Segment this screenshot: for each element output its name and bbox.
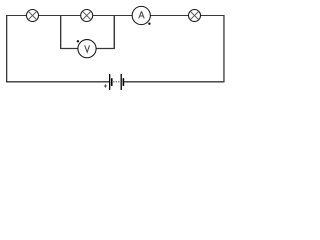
battery cell 1 long plate (+) — [109, 74, 111, 90]
voltmeter polarity dot — [77, 40, 79, 42]
wire: voltmeter branch horizontal — [60, 48, 115, 50]
wire: outer loop bottom-left (left corner to battery) — [6, 81, 110, 83]
battery dashed link (more cells) — [113, 81, 120, 83]
wire: outer loop right — [223, 15, 225, 82]
lamp X2 (above voltmeter) — [81, 10, 93, 22]
battery cell 2 short thick plate (-) — [122, 78, 124, 86]
battery cell 2 long plate (+) — [120, 74, 122, 90]
ammeter polarity dot — [148, 23, 150, 25]
voltmeter V — [78, 40, 96, 58]
lamp X3 (top-right) — [189, 10, 201, 22]
wire: outer loop left — [6, 15, 8, 82]
lamp X1 (top-left) — [27, 10, 39, 22]
wire: voltmeter branch left vertical — [60, 16, 62, 49]
wire: outer loop top — [6, 15, 224, 17]
battery plus label — [104, 84, 107, 87]
wire: voltmeter branch right vertical — [113, 16, 115, 49]
ammeter A — [132, 6, 150, 24]
wire: outer loop bottom-right (battery to right corner) — [123, 81, 224, 83]
battery cell 1 short thick plate (-) — [111, 78, 113, 86]
